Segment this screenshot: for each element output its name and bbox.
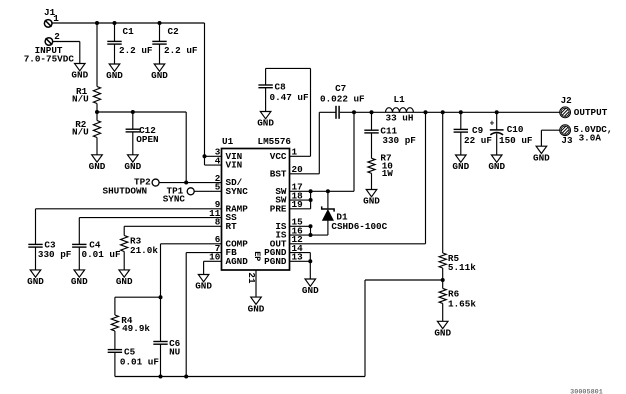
wire VCC pin1	[266, 68, 311, 156]
ground under C4	[71, 270, 88, 287]
svg-text:EP: EP	[252, 251, 261, 261]
ground under PGND	[302, 279, 319, 296]
label R1	[76, 86, 88, 97]
U1 exposed pad label EP	[252, 251, 261, 261]
svg-text:4: 4	[215, 155, 221, 166]
wire R6 bottom	[442, 303, 444, 321]
svg-text:U1: U1	[222, 136, 234, 147]
pin number 18 of U1	[292, 190, 304, 201]
svg-text:RT: RT	[226, 221, 238, 232]
svg-text:33 uH: 33 uH	[386, 113, 414, 124]
svg-text:C10: C10	[507, 124, 524, 135]
ground under AGND	[195, 275, 212, 292]
ground under R6	[434, 321, 451, 338]
label L1	[394, 94, 406, 105]
wire C11 top	[371, 112, 373, 130]
wire D1 cathode	[327, 191, 329, 208]
wire SYNC to pin5	[194, 190, 221, 192]
diode D1	[322, 206, 334, 220]
node junction FB on bottom rail	[184, 375, 188, 379]
svg-text:30005801: 30005801	[570, 389, 603, 394]
svg-text:GND: GND	[434, 328, 451, 339]
wire VIN top rail	[52, 23, 204, 165]
label R2	[75, 119, 87, 130]
svg-text:GND: GND	[124, 161, 141, 172]
ground under R3	[116, 270, 133, 287]
ground under C12	[124, 155, 141, 172]
pin number 11 of U1	[209, 208, 221, 219]
node junction R1 on VIN rail	[95, 21, 99, 25]
U1 pin label RT left	[226, 221, 238, 232]
pin number 19 of U1	[292, 199, 304, 210]
wire D1 anode	[327, 220, 329, 235]
svg-text:GND: GND	[27, 276, 44, 287]
U1 pin label VCC right	[270, 151, 287, 162]
capacitor C9	[454, 129, 468, 132]
node junction R5 on rail	[441, 110, 445, 114]
wire C1 bottom	[114, 44, 116, 64]
pin number 3 of U1	[215, 147, 221, 158]
svg-text:OPEN: OPEN	[136, 134, 158, 145]
svg-text:GND: GND	[71, 276, 88, 287]
pin number 12 of U1	[292, 234, 304, 245]
wire EP pin21	[255, 270, 257, 297]
U1 pin label VIN left	[226, 160, 243, 171]
wire C9 top	[460, 112, 462, 129]
svg-text:2.2 uF: 2.2 uF	[119, 45, 153, 56]
label C11	[380, 126, 397, 137]
node SD divider row	[95, 110, 186, 114]
U1 pin label FB left	[226, 247, 238, 258]
wire IS pins	[290, 226, 328, 235]
wire R1 bottom	[96, 104, 98, 113]
svg-text:GND: GND	[71, 70, 88, 81]
wire SD to pin2	[159, 182, 221, 184]
label C8	[275, 81, 287, 92]
value 0.022 uF of C7	[320, 94, 365, 105]
U1 pin label IS right	[275, 230, 287, 241]
resistor R6	[439, 288, 446, 303]
svg-text:C7: C7	[335, 83, 346, 94]
svg-text:J3: J3	[561, 135, 573, 146]
U1 pin label BST right	[270, 168, 287, 179]
wire R2 bottom	[96, 138, 98, 155]
svg-text:GND: GND	[151, 70, 168, 81]
wire C8 top	[265, 68, 267, 85]
U1 pin label VIN left	[226, 151, 243, 162]
wire comp network top rail	[115, 296, 161, 298]
wire R5 top	[442, 112, 444, 253]
svg-text:0.47 uF: 0.47 uF	[270, 92, 309, 103]
IC U1 LM5576 body	[222, 149, 290, 271]
svg-text:GND: GND	[116, 276, 133, 287]
wire C6 top	[160, 297, 162, 341]
capacitor C7	[336, 106, 339, 119]
pin number 13 of U1	[292, 252, 304, 263]
node junction R5 R6	[441, 278, 445, 282]
resistor R2	[93, 121, 100, 138]
wire BST pin20	[290, 112, 337, 174]
pin number 4 of U1	[215, 155, 221, 166]
pin number 17 of U1	[292, 182, 303, 193]
U1 pin label PGND right	[264, 247, 287, 258]
ground under J1 pin2	[71, 64, 88, 81]
svg-text:0.01 uF: 0.01 uF	[82, 249, 121, 260]
test point TP1	[187, 188, 194, 195]
label R5	[448, 253, 460, 264]
node junction PGND pin13	[308, 259, 312, 263]
capacitor C5	[108, 350, 122, 353]
ground under C3	[27, 270, 44, 287]
value 1W of R7	[382, 168, 394, 179]
U1 pin label SD/ left	[226, 177, 243, 188]
svg-text:PGND: PGND	[264, 256, 287, 267]
value NU of C6	[169, 346, 180, 357]
wire C2 bottom	[159, 44, 161, 64]
svg-text:C2: C2	[168, 26, 180, 37]
label R3	[130, 236, 142, 247]
capacitor C2	[152, 41, 166, 44]
U1 pin label COMP left	[226, 238, 249, 249]
pin number 10 of U1	[209, 252, 221, 263]
pin number 6 of U1	[215, 234, 221, 245]
pin number 15 of U1	[292, 217, 304, 228]
wire R1 top	[96, 23, 98, 87]
wire PGND pins	[290, 253, 311, 279]
value 21.0k of R3	[130, 245, 158, 256]
svg-text:1: 1	[53, 13, 59, 24]
ground under C1	[106, 64, 123, 81]
value CSHD6-100C of D1	[331, 221, 387, 232]
svg-text:LM5576: LM5576	[258, 136, 292, 147]
wire C5 bottom	[114, 352, 116, 376]
resistor R5	[439, 253, 446, 268]
svg-text:GND: GND	[195, 281, 212, 292]
label C7	[335, 83, 346, 94]
label OUTPUT	[574, 107, 608, 118]
label 3.0A	[579, 133, 602, 144]
svg-text:GND: GND	[248, 303, 265, 314]
ground under R2	[89, 155, 106, 172]
pin number 2 of J1	[54, 31, 60, 42]
wire C11 to R7	[371, 133, 373, 158]
capacitor C11	[364, 130, 378, 133]
svg-text:N/U: N/U	[72, 93, 89, 104]
label TP2	[134, 177, 151, 188]
svg-text:GND: GND	[89, 161, 106, 172]
capacitor C4	[72, 244, 86, 247]
pin number 2 of U1	[215, 173, 221, 184]
U1 pin label SS left	[226, 212, 238, 223]
node junction IS pin16	[309, 233, 313, 237]
node junction SW on output rail	[352, 110, 356, 114]
svg-text:5.11k: 5.11k	[448, 262, 476, 273]
pin number 5 of U1	[215, 182, 221, 193]
wire C4 bottom	[78, 247, 80, 270]
capacitor C10	[490, 130, 504, 135]
svg-text:VCC: VCC	[270, 151, 287, 162]
label C2	[168, 26, 180, 37]
value 5.11k of R5	[448, 262, 476, 273]
svg-text:SHUTDOWN: SHUTDOWN	[103, 185, 148, 196]
label C12	[139, 125, 156, 136]
wire R5 bottom	[442, 268, 444, 280]
connector J1 pin 1	[44, 20, 52, 28]
svg-text:+: +	[490, 121, 495, 129]
wire J3 to ground	[541, 130, 559, 146]
wire C12 bottom	[132, 132, 134, 155]
svg-text:SYNC: SYNC	[163, 193, 186, 204]
label SYNC	[163, 193, 186, 204]
svg-text:J2: J2	[561, 95, 573, 106]
svg-text:0.01 uF: 0.01 uF	[120, 356, 159, 367]
document number 30005801	[570, 389, 603, 394]
svg-text:AGND: AGND	[226, 256, 249, 267]
pin number 20 of U1	[292, 164, 304, 175]
label J2	[561, 95, 573, 106]
svg-text:PRE: PRE	[270, 203, 287, 214]
pin number 8 of U1	[215, 217, 221, 228]
ground under C8	[257, 112, 274, 129]
node junction SW pin18	[309, 198, 313, 202]
label C5	[124, 346, 136, 357]
ground under C2	[151, 64, 168, 81]
svg-text:2: 2	[54, 31, 60, 42]
test point TP2	[152, 179, 159, 186]
wire feedback bottom rail	[115, 376, 365, 378]
connector J2	[560, 107, 571, 118]
wire AGND pin10	[204, 261, 222, 274]
svg-text:330 pF: 330 pF	[382, 135, 416, 146]
U1 pin label IS right	[275, 221, 287, 232]
wire J1 pin2 to ground	[53, 42, 80, 64]
node junction D1 cathode top	[326, 189, 330, 193]
svg-text:1.65k: 1.65k	[448, 299, 476, 310]
ground under C10	[488, 155, 505, 172]
pin number 14 of U1	[292, 243, 304, 254]
value 0.01 uF of C5	[120, 356, 159, 367]
label C9	[472, 125, 484, 136]
U1 pin label SW right	[275, 186, 287, 197]
label C3	[44, 240, 56, 251]
value 150 uF of C10	[499, 135, 533, 146]
label SHUTDOWN	[103, 185, 148, 196]
capacitor C1	[107, 41, 121, 44]
svg-text:7.0-75VDC: 7.0-75VDC	[24, 54, 75, 65]
capacitor C6	[153, 342, 167, 345]
wire SW pins row	[290, 190, 355, 192]
svg-text:5: 5	[215, 182, 221, 193]
svg-text:49.9k: 49.9k	[122, 323, 150, 334]
wire RAMP to C3	[36, 209, 222, 245]
svg-text:GND: GND	[363, 196, 380, 207]
U1 pin label SW right	[275, 195, 287, 206]
wire SS to C4	[79, 218, 221, 245]
ground under R7	[363, 190, 380, 207]
value 2.2 uF of C2	[164, 45, 198, 56]
label 5.0VDC,	[573, 124, 612, 135]
pin number 16 of U1	[292, 225, 304, 236]
U1 pin label OUT right	[270, 238, 287, 249]
ground under J3	[533, 146, 550, 163]
wire C9 bottom	[460, 132, 462, 155]
node junction C6 bottom	[159, 375, 163, 379]
capacitor C3	[28, 244, 42, 247]
connector J3	[560, 125, 571, 136]
value N/U of R1	[72, 93, 89, 104]
svg-text:330 pF: 330 pF	[38, 249, 72, 260]
value 10 of R7	[382, 160, 394, 171]
value OPEN of C12	[136, 134, 158, 145]
U1 pin label RAMP left	[226, 203, 249, 214]
node junction C10 on rail	[495, 110, 499, 114]
wire C10 top	[496, 112, 498, 130]
label R6	[448, 288, 460, 299]
wire SW up to rail	[353, 112, 355, 191]
wire R7 bottom	[371, 173, 373, 189]
resistor R3	[121, 236, 128, 252]
label LM5576	[258, 136, 292, 147]
node junction IS pin15	[309, 224, 313, 228]
svg-text:SYNC: SYNC	[226, 186, 249, 197]
wire C10 bottom	[496, 134, 498, 155]
wire C1 top	[114, 23, 116, 41]
value 33 uH of L1	[386, 113, 414, 124]
capacitor C8	[258, 85, 272, 88]
label C4	[89, 240, 101, 251]
resistor R7	[368, 158, 375, 173]
node junction SW pin17	[309, 189, 313, 193]
label R7	[380, 152, 391, 163]
ground under C9	[452, 155, 469, 172]
pin number 21 of U1	[246, 272, 257, 284]
wire output rail	[340, 111, 560, 113]
svg-text:N/U: N/U	[72, 127, 89, 138]
svg-text:GND: GND	[488, 161, 505, 172]
svg-text:CSHD6-100C: CSHD6-100C	[331, 221, 387, 232]
wire COMP pin6	[161, 244, 222, 297]
svg-text:C1: C1	[123, 26, 135, 37]
wire C12 top	[132, 112, 134, 129]
label C6	[169, 338, 181, 349]
resistor R1	[93, 87, 100, 104]
svg-text:GND: GND	[257, 118, 274, 129]
wire R4 top	[114, 297, 116, 315]
node junction OUT on rail	[424, 110, 428, 114]
svg-text:22 uF: 22 uF	[464, 135, 492, 146]
ground under EP	[248, 297, 265, 314]
wire FB pin7	[186, 253, 221, 377]
value 330 pF of C3	[38, 249, 72, 260]
wire C3 bottom	[35, 247, 37, 270]
label TP1	[167, 185, 184, 196]
wire R3 bottom	[123, 252, 125, 270]
wire C6 bottom	[160, 344, 162, 376]
U1 pin label SYNC left	[226, 186, 249, 197]
svg-text:2.2 uF: 2.2 uF	[164, 45, 198, 56]
svg-text:150 uF: 150 uF	[499, 135, 533, 146]
value 0.47 uF of C8	[270, 92, 309, 103]
node junction C2 on VIN rail	[158, 21, 162, 25]
wire VIN stub pin3	[205, 155, 222, 157]
pin number 9 of U1	[215, 199, 221, 210]
inductor L1	[386, 108, 414, 113]
svg-text:VIN: VIN	[226, 160, 243, 171]
svg-text:0.022 uF: 0.022 uF	[320, 94, 365, 105]
wire RT to R3	[124, 226, 221, 235]
connector J1 pin 2	[45, 38, 53, 46]
label C10	[507, 124, 524, 135]
label R4	[121, 315, 133, 326]
svg-text:3.0A: 3.0A	[579, 133, 602, 144]
wire feedback riser	[365, 280, 443, 377]
svg-text:GND: GND	[533, 152, 550, 163]
label INPUT	[35, 45, 63, 56]
wire OUT pin12 to rail	[290, 112, 426, 244]
value 2.2 uF of C1	[119, 45, 153, 56]
pin number 1 of J1	[53, 13, 59, 24]
svg-text:BST: BST	[270, 168, 287, 179]
U1 pin label PRE right	[270, 203, 287, 214]
label U1	[222, 136, 234, 147]
value N/U of R2	[72, 127, 89, 138]
svg-text:L1: L1	[394, 94, 406, 105]
node junction C1 on VIN rail	[113, 21, 117, 25]
label D1	[336, 212, 348, 223]
value 0.01 uF of C4	[82, 249, 121, 260]
wire R2 top	[96, 112, 98, 121]
capacitor C12	[126, 129, 140, 132]
svg-text:1W: 1W	[382, 168, 394, 179]
connector J1 label	[44, 7, 56, 18]
wire C2 top	[159, 23, 161, 41]
wire SW tie 18 19	[290, 191, 311, 209]
node junction COMP top	[159, 295, 163, 299]
value 330 pF of C11	[382, 135, 416, 146]
label 7.0-75VDC	[24, 54, 75, 65]
svg-text:NU: NU	[169, 346, 180, 357]
wire R4 to C5	[114, 331, 116, 350]
pin number 7 of U1	[215, 243, 221, 254]
node junction C9 on rail	[459, 110, 463, 114]
svg-text:21.0k: 21.0k	[130, 245, 158, 256]
svg-text:GND: GND	[302, 285, 319, 296]
wire SD vertical	[185, 112, 187, 183]
svg-text:OUTPUT: OUTPUT	[574, 107, 608, 118]
node junction SD	[184, 181, 188, 185]
svg-text:GND: GND	[106, 70, 123, 81]
node junction VIN pin3	[203, 154, 207, 158]
pin number 1 of U1	[292, 147, 298, 158]
wire R6 top	[442, 280, 444, 288]
value 1.65k of R6	[448, 299, 476, 310]
label J3	[561, 135, 573, 146]
svg-text:GND: GND	[452, 161, 469, 172]
U1 pin label AGND left	[226, 256, 249, 267]
value 49.9k of R4	[122, 323, 150, 334]
value 22 uF of C9	[464, 135, 492, 146]
resistor R4	[111, 315, 118, 331]
U1 pin label PGND right	[264, 256, 287, 267]
label C1	[123, 26, 135, 37]
plus sign of C10	[490, 121, 495, 129]
node junction C11 on rail	[370, 110, 374, 114]
wire C8 bottom	[265, 88, 267, 112]
wire VIN stub pin4	[205, 164, 222, 166]
svg-text:C8: C8	[275, 81, 287, 92]
